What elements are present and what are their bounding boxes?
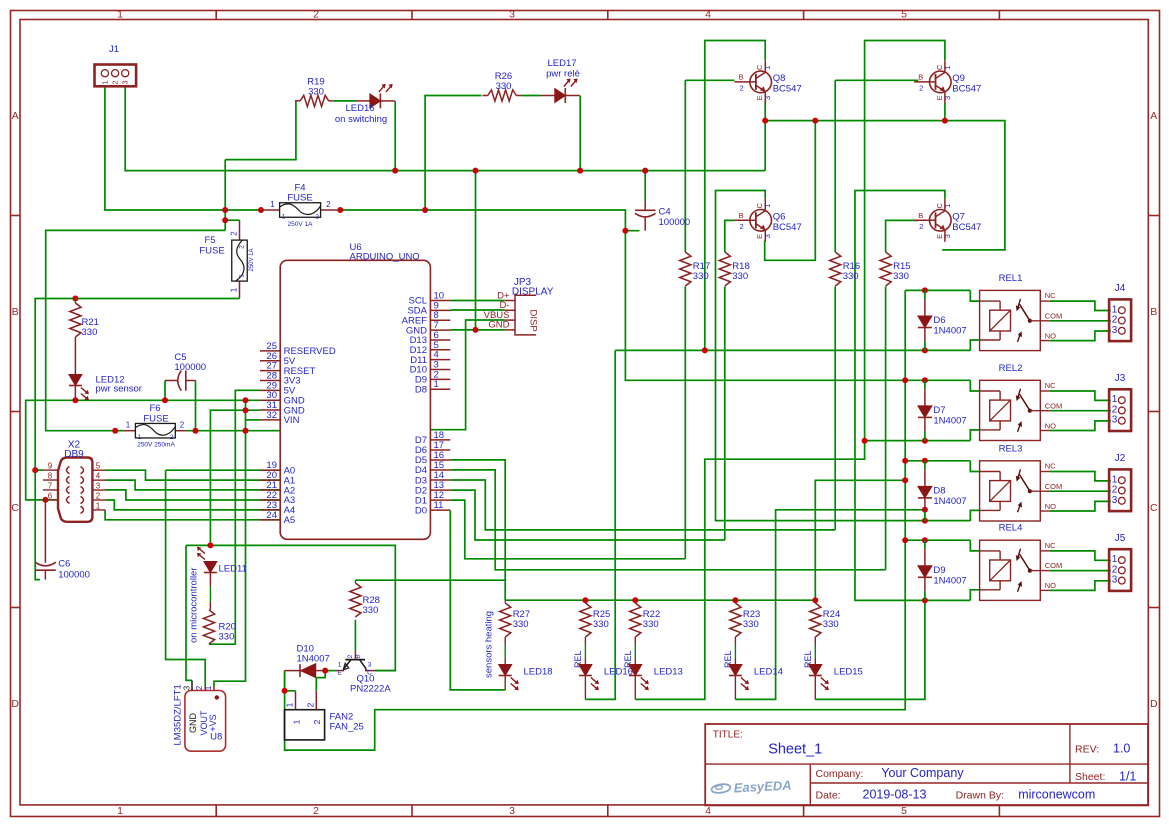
svg-text:E: E: [337, 670, 342, 677]
svg-text:2: 2: [312, 719, 322, 724]
svg-text:1N4007: 1N4007: [933, 496, 966, 507]
wire LED15 riser to D9: [815, 600, 925, 699]
svg-text:B: B: [739, 72, 744, 81]
frame row letters: [11, 110, 1158, 710]
wire GND row pin30: [26, 381, 260, 500]
svg-text:1: 1: [204, 685, 213, 690]
svg-text:D: D: [1150, 698, 1158, 710]
svg-text:FUSE: FUSE: [143, 414, 168, 425]
wire DB9.4 to A2: [105, 480, 280, 490]
svg-text:1.0: 1.0: [1113, 742, 1130, 756]
svg-text:2: 2: [740, 222, 744, 231]
svg-text:330: 330: [593, 619, 609, 630]
wire F4 output to C4 bottom node: [340, 210, 639, 231]
svg-text:U8: U8: [210, 732, 222, 743]
svg-text:3: 3: [1112, 495, 1118, 506]
svg-text:2: 2: [111, 80, 120, 84]
svg-text:BC547: BC547: [773, 83, 802, 94]
svg-text:B: B: [918, 211, 923, 220]
connector J1: [95, 44, 137, 86]
svg-text:3: 3: [368, 662, 372, 669]
svg-text:REL3: REL3: [999, 443, 1023, 454]
svg-text:FAN_25: FAN_25: [330, 722, 364, 733]
wire REL2 coil steps: [970, 380, 979, 440]
svg-text:2: 2: [347, 654, 354, 658]
svg-text:11: 11: [434, 500, 444, 511]
svg-text:4: 4: [96, 472, 101, 481]
svg-text:sensors heating: sensors heating: [484, 611, 495, 678]
wire R18 to Q6 base: [725, 220, 735, 540]
svg-text:3: 3: [121, 80, 130, 84]
svg-text:D7: D7: [933, 405, 945, 416]
svg-text:GND: GND: [488, 320, 509, 331]
svg-text:2: 2: [315, 214, 319, 221]
wire Q9 collector loop to REL2: [635, 41, 970, 700]
svg-text:NO: NO: [1045, 331, 1056, 340]
svg-text:330: 330: [308, 87, 324, 98]
relay REL3: [980, 443, 1063, 521]
wire DB9.2 to A4: [105, 500, 280, 510]
svg-text:3: 3: [763, 234, 772, 238]
resistor R17: [680, 252, 711, 286]
svg-text:PN2222A: PN2222A: [350, 684, 391, 695]
wire R19 to LED16: [334, 100, 356, 102]
svg-text:2: 2: [230, 231, 239, 236]
svg-text:2: 2: [180, 421, 185, 430]
fuse F4: [261, 183, 340, 229]
diode lead D8: [924, 461, 926, 521]
svg-text:330: 330: [643, 619, 659, 630]
svg-text:330: 330: [743, 619, 759, 630]
capacitor C6: [35, 500, 90, 581]
svg-text:1N4007: 1N4007: [933, 415, 966, 426]
wire DB9.5 to A1: [105, 470, 280, 480]
relay REL1: [980, 273, 1063, 351]
wire LED11 to R20: [209, 573, 211, 610]
wire +12V feed to LED supply rail: [815, 480, 905, 600]
svg-text:32: 32: [266, 410, 277, 421]
title block texts: [713, 730, 1137, 802]
svg-text:LED18: LED18: [524, 667, 553, 678]
U6 right pins 18-11: [415, 430, 450, 516]
svg-text:2: 2: [326, 200, 331, 209]
svg-text:BC547: BC547: [952, 83, 981, 94]
wire A0 to U8 VOUT: [166, 470, 281, 686]
wire LED16 cathode: [584, 676, 586, 700]
svg-text:1N4007: 1N4007: [933, 326, 966, 337]
svg-text:A: A: [1150, 110, 1157, 122]
wire D3 to R16: [450, 480, 835, 530]
svg-text:F6: F6: [149, 403, 160, 414]
diode D10: [285, 644, 330, 678]
transistor Q6: [735, 199, 802, 242]
svg-text:C6: C6: [58, 559, 70, 570]
connector J4: [1109, 283, 1131, 341]
wire LED14 riser to D8: [735, 510, 925, 700]
resistor R22: [630, 600, 661, 645]
svg-text:Q8: Q8: [773, 73, 786, 84]
svg-text:9: 9: [48, 462, 53, 471]
svg-text:1: 1: [434, 379, 439, 390]
svg-text:FUSE: FUSE: [199, 246, 224, 257]
wire R17 column: [684, 80, 686, 559]
svg-text:J5: J5: [1115, 533, 1126, 544]
svg-text:3: 3: [183, 685, 192, 690]
frame column numbers: [117, 9, 907, 817]
svg-text:FUSE: FUSE: [287, 193, 312, 204]
resistor R15: [880, 252, 911, 286]
wire LED11 GND rail to Q10 collector: [186, 545, 395, 680]
wire R24 to LED15: [814, 645, 816, 665]
svg-text:5: 5: [901, 805, 907, 817]
LED LED17: [541, 58, 580, 103]
svg-text:Your Company: Your Company: [881, 766, 964, 780]
svg-text:1: 1: [943, 65, 952, 69]
svg-text:3: 3: [509, 805, 515, 817]
wire GND drop to JP3 GND: [475, 171, 477, 330]
diode D9: [918, 565, 967, 587]
wire +12V bus: [285, 290, 906, 750]
svg-text:3: 3: [1112, 325, 1118, 336]
svg-text:GND: GND: [188, 713, 198, 734]
svg-text:LED11: LED11: [219, 564, 247, 575]
svg-text:NO: NO: [1045, 421, 1056, 430]
wire F6 output to Arduino VIN region: [186, 381, 280, 431]
svg-text:D0: D0: [415, 505, 427, 516]
wire REL1 top row: [905, 289, 970, 291]
diode D8: [918, 485, 967, 507]
svg-text:J2: J2: [1115, 453, 1126, 464]
diode D7: [918, 405, 967, 427]
diode D6: [918, 315, 967, 337]
svg-text:ARDUINO_UNO: ARDUINO_UNO: [350, 252, 420, 263]
transistor Q8: [735, 60, 802, 103]
connector J3: [1109, 373, 1131, 431]
svg-text:2019-08-13: 2019-08-13: [863, 788, 927, 802]
relay REL4: [980, 523, 1063, 601]
wire Q6 emitter jog: [765, 121, 816, 261]
svg-text:on microcontroller: on microcontroller: [189, 568, 200, 644]
LED LED11: [197, 547, 217, 573]
svg-text:1: 1: [230, 287, 239, 292]
svg-text:1: 1: [943, 204, 952, 208]
svg-text:1N4007: 1N4007: [297, 654, 330, 665]
svg-text:1: 1: [117, 9, 123, 21]
EasyEDA logo: [711, 777, 792, 795]
U6 left pins 19-24 A0-A5: [260, 460, 295, 526]
LED LED14: [729, 665, 749, 691]
svg-text:BC547: BC547: [773, 222, 802, 233]
wire Q6 collector loop to REL3: [716, 191, 971, 521]
svg-text:2: 2: [740, 83, 744, 92]
connector X2 DB9: [43, 440, 105, 522]
LED LED12: [69, 375, 89, 401]
wire GND top row: [125, 86, 765, 170]
title block: [705, 724, 1148, 805]
svg-text:pwr sensor: pwr sensor: [96, 384, 142, 395]
diode lead D7: [924, 380, 926, 440]
svg-text:NC: NC: [1045, 381, 1056, 390]
svg-text:B: B: [918, 72, 923, 81]
svg-text:NO: NO: [1045, 581, 1056, 590]
svg-text:Drawn By:: Drawn By:: [956, 790, 1004, 802]
wire Q9 base row: [835, 79, 918, 81]
svg-text:C4: C4: [659, 207, 671, 218]
LED LED13: [629, 665, 649, 691]
svg-text:LED17: LED17: [547, 58, 576, 69]
svg-text:1: 1: [763, 65, 772, 69]
svg-text:Sheet:: Sheet:: [1075, 771, 1105, 783]
svg-text:TITLE:: TITLE:: [713, 730, 743, 741]
svg-text:D8: D8: [933, 485, 945, 496]
svg-text:NO: NO: [1045, 502, 1056, 511]
wire D5 to heater rail: [450, 460, 505, 600]
wire Q8 collector loop: [705, 41, 765, 351]
capacitor C4: [635, 202, 690, 231]
svg-text:F5: F5: [204, 235, 215, 246]
svg-text:1: 1: [292, 719, 302, 724]
wire LED17 cathode drop: [579, 96, 581, 171]
svg-text:Date:: Date:: [816, 790, 841, 802]
resistor R19: [295, 77, 334, 107]
wire SDA to JP3 D-: [450, 309, 504, 311]
resistor R21: [70, 299, 99, 375]
wire REL4 coil steps: [970, 540, 979, 600]
svg-text:REV:: REV:: [1075, 744, 1099, 756]
svg-text:330: 330: [363, 605, 379, 616]
wire F4 row branch to F6: [46, 230, 226, 430]
wire J1.1 to F4 row: [105, 86, 261, 210]
svg-text:3: 3: [943, 96, 952, 100]
wire DB9.3 to A3: [105, 490, 280, 500]
wire R23 to LED14: [734, 645, 736, 665]
wire F5 bottom to R21 and C6 net: [35, 299, 239, 580]
svg-text:Company:: Company:: [816, 768, 864, 780]
svg-text:3: 3: [96, 482, 101, 491]
LED LED16: [345, 84, 394, 114]
svg-text:J1: J1: [109, 44, 119, 55]
U6 left pins 25-32: [260, 341, 336, 426]
wire D4 to R15: [450, 470, 885, 570]
transistor Q9: [914, 60, 981, 103]
LED LED15: [809, 665, 829, 691]
svg-text:6: 6: [48, 491, 53, 500]
svg-text:330: 330: [219, 632, 235, 643]
svg-text:on switching: on switching: [335, 114, 387, 125]
svg-text:+VS: +VS: [208, 714, 218, 731]
svg-text:330: 330: [893, 271, 909, 282]
wire REL3 contact to connector: [1050, 472, 1111, 512]
IC U8 LM35DZ: [173, 680, 226, 751]
resistor R28: [350, 580, 380, 617]
svg-text:A: A: [12, 110, 19, 122]
svg-text:5: 5: [901, 9, 907, 21]
svg-text:330: 330: [82, 327, 98, 338]
wire REL2 bottom row: [865, 440, 971, 442]
resistor R25: [580, 600, 611, 645]
svg-text:250V 250mA: 250V 250mA: [137, 442, 175, 449]
svg-text:2: 2: [305, 702, 315, 707]
wire R15 to Q7 base: [886, 220, 919, 569]
wire LED18 cathode: [504, 676, 506, 690]
LED LED18: [499, 665, 519, 691]
svg-text:B: B: [12, 306, 19, 318]
resistor R24: [810, 600, 841, 645]
wire R28 row: [355, 580, 505, 651]
svg-text:Q9: Q9: [952, 73, 965, 84]
svg-text:BC547: BC547: [952, 222, 981, 233]
resistor R23: [730, 600, 761, 645]
wire LED15 cathode: [814, 676, 816, 700]
svg-text:3: 3: [1112, 575, 1118, 586]
svg-text:330: 330: [732, 271, 748, 282]
svg-text:1: 1: [338, 662, 342, 669]
wire REL2 contact to connector: [1050, 391, 1111, 431]
svg-text:Q6: Q6: [773, 211, 786, 222]
wire R22 to LED13: [634, 645, 636, 665]
svg-text:1: 1: [285, 702, 295, 707]
svg-text:2: 2: [919, 222, 923, 231]
svg-text:330: 330: [693, 271, 709, 282]
svg-text:330: 330: [843, 271, 859, 282]
labels LED12 pwr sensor: [75, 375, 142, 401]
svg-text:24: 24: [266, 510, 277, 521]
svg-text:2: 2: [239, 245, 246, 249]
svg-text:A5: A5: [284, 515, 296, 526]
wire GND pin31 to LED11: [210, 410, 260, 545]
wire emitter rail: [765, 101, 1005, 250]
svg-text:1: 1: [138, 434, 142, 441]
svg-text:330: 330: [496, 81, 512, 92]
svg-text:DB9: DB9: [64, 449, 84, 460]
wire LED14 cathode: [734, 676, 736, 700]
svg-text:Sheet_1: Sheet_1: [768, 742, 822, 758]
fan FAN2: [285, 691, 364, 740]
wire R26 to LED17: [522, 95, 541, 97]
wire GND pin7 to JP3 GND: [450, 329, 504, 331]
svg-text:D8: D8: [415, 384, 427, 395]
svg-text:COM: COM: [1045, 561, 1063, 570]
svg-text:REL4: REL4: [999, 523, 1023, 534]
svg-text:1: 1: [100, 80, 109, 84]
svg-text:VIN: VIN: [284, 415, 300, 426]
wire D10 and fan connections: [285, 671, 396, 691]
svg-text:REL2: REL2: [999, 363, 1023, 374]
wire LED supply rail: [505, 599, 815, 601]
capacitor C5: [165, 352, 206, 391]
resistor R16: [830, 252, 861, 286]
svg-text:COM: COM: [1045, 311, 1063, 320]
svg-text:LED13: LED13: [654, 667, 683, 678]
svg-text:D6: D6: [933, 315, 945, 326]
svg-text:8: 8: [48, 472, 53, 481]
wire R26 feed: [425, 96, 481, 211]
transistor Q10 PN2222A: [335, 651, 391, 695]
svg-text:mirconewcom: mirconewcom: [1018, 788, 1095, 802]
svg-text:2: 2: [170, 434, 174, 441]
wire LED13 cathode: [634, 676, 636, 700]
wire DB9.1 to A5: [105, 510, 280, 520]
svg-text:LED15: LED15: [834, 667, 863, 678]
diode lead D6: [924, 290, 926, 350]
wire Q8 base row: [685, 79, 734, 81]
wire D2 to R18: [450, 490, 725, 540]
LED LED16: [579, 665, 599, 691]
wire branch to F5 pin2: [225, 160, 239, 231]
svg-text:3: 3: [509, 9, 515, 21]
svg-text:100000: 100000: [174, 362, 206, 373]
svg-text:250V 1A: 250V 1A: [249, 248, 255, 271]
svg-text:2: 2: [313, 9, 319, 21]
wire D0 to LED18 return: [450, 510, 505, 690]
wire REL3 coil steps: [970, 461, 979, 521]
wire R19 left to F4 row: [225, 101, 296, 160]
svg-text:7: 7: [48, 481, 53, 490]
svg-text:LED14: LED14: [754, 667, 783, 678]
svg-text:100000: 100000: [659, 217, 691, 228]
svg-text:B: B: [739, 211, 744, 220]
fuse F5: [199, 220, 255, 298]
svg-text:LED16: LED16: [345, 103, 374, 114]
wire R16 column: [834, 80, 836, 530]
wire LED16 cathode drop: [394, 101, 396, 171]
svg-text:1: 1: [282, 214, 286, 221]
svg-text:B: B: [355, 654, 362, 658]
relay REL2: [980, 363, 1063, 441]
svg-text:1N4007: 1N4007: [933, 575, 966, 586]
svg-text:330: 330: [823, 619, 839, 630]
svg-text:5: 5: [96, 462, 101, 471]
svg-text:DISP: DISP: [528, 310, 539, 332]
connector JP3 DISPLAY: [484, 277, 554, 335]
svg-text:J4: J4: [1115, 283, 1126, 294]
wire C4 top lead drop: [644, 171, 646, 202]
svg-text:1: 1: [270, 200, 275, 209]
wire JP3 VBUS jog: [430, 320, 504, 430]
svg-text:3: 3: [763, 96, 772, 100]
svg-text:D: D: [11, 698, 19, 710]
wire REL1 drive row: [585, 350, 970, 699]
svg-text:100000: 100000: [58, 570, 90, 581]
svg-text:1/1: 1/1: [1119, 770, 1136, 784]
svg-text:2: 2: [919, 83, 923, 92]
wire SCL to JP3 D+: [450, 300, 504, 302]
svg-text:2: 2: [195, 685, 204, 690]
svg-text:COM: COM: [1045, 401, 1063, 410]
svg-text:1: 1: [126, 421, 131, 430]
svg-text:1: 1: [239, 274, 246, 278]
svg-text:D9: D9: [933, 565, 945, 576]
svg-text:250V 1A: 250V 1A: [288, 221, 314, 228]
svg-text:NC: NC: [1045, 462, 1056, 471]
connector J2: [1109, 453, 1131, 511]
svg-text:C: C: [1150, 502, 1158, 514]
wire REL1 coil steps: [970, 290, 979, 350]
svg-text:EasyEDA: EasyEDA: [733, 777, 792, 795]
svg-text:REL1: REL1: [999, 273, 1023, 284]
wire REL3 top row: [905, 460, 970, 462]
wire fused 5V vertical to U8 +VS: [214, 400, 246, 686]
resistor R27: [500, 600, 531, 645]
svg-text:C: C: [11, 502, 19, 514]
svg-text:pwr relè: pwr relè: [546, 69, 580, 80]
svg-text:4: 4: [705, 805, 711, 817]
wire R25 to LED16: [584, 645, 586, 665]
svg-text:NC: NC: [1045, 291, 1056, 300]
svg-text:330: 330: [513, 619, 529, 630]
wire C4 bottom to +12V bus via REL2 top row: [625, 231, 970, 381]
wire REL1 contact to connector: [1050, 301, 1111, 341]
